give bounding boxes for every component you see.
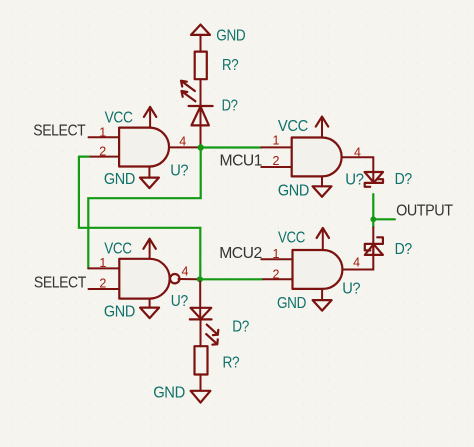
svg-text:4: 4 [182,265,189,279]
U4 pin 2 [261,267,292,281]
wire J1 to MCU1 pin1 [202,146,261,148]
svg-text:U?: U? [170,163,189,180]
LED D2 (bottom, cathode down) [190,308,250,345]
svg-text:MCU2: MCU2 [219,245,262,262]
U3 pin 1 [261,133,291,147]
junction J1 [198,144,204,150]
U3 VCC arrow [278,117,328,138]
svg-text:SELECT: SELECT [33,123,86,140]
svg-text:U?: U? [171,293,189,310]
svg-text:VCC: VCC [105,109,133,126]
op-amp U3 AND gate (MCU1, top-right) [292,138,365,189]
wire J2 down to LED D2 [199,282,201,320]
svg-text:GND: GND [104,303,135,320]
op-amp U2 NAND gate (bottom-left) [119,259,188,310]
wire stub U1 pin2 [79,156,89,158]
svg-text:VCC: VCC [278,229,305,246]
svg-text:1: 1 [99,256,106,270]
wire D3 to J3 [372,194,374,227]
diode D3 schottky (top-right, pointing down) [365,171,413,188]
svg-text:GND: GND [278,182,309,199]
diode D4 schottky (bottom-right, pointing up) [365,227,413,258]
svg-text:VCC: VCC [278,118,308,135]
svg-text:R?: R? [222,57,239,74]
svg-text:D?: D? [395,241,413,258]
LED D1 (top, cathode up) [181,81,238,126]
U3 pin 4 output [342,145,374,183]
svg-text:D?: D? [222,98,239,115]
power symbol GND (top, rotated up) [191,25,245,52]
svg-text:2: 2 [273,267,280,281]
svg-text:4: 4 [353,256,360,270]
svg-text:GND: GND [153,384,185,401]
svg-text:OUTPUT: OUTPUT [396,202,453,219]
wire resistor R1 to LED D1 [200,79,202,125]
U4 pin 1 [261,247,292,261]
U2 pin 1 [88,256,119,270]
svg-text:2: 2 [273,154,280,168]
svg-text:1: 1 [99,125,106,139]
resistor R1 (top) [195,52,239,80]
op-amp U4 AND gate (MCU2, bottom-right) [293,250,361,298]
U2 VCC arrow [104,239,156,259]
svg-text:1: 1 [273,247,280,261]
svg-text:VCC: VCC [104,240,132,257]
wire LED D2 to resistor R2 [200,319,202,346]
op-amp U1 AND gate (top-left) [119,128,189,180]
svg-text:MCU1: MCU1 [220,152,263,169]
U1 pin 2 [89,145,120,159]
svg-text:2: 2 [99,277,106,291]
U3 GND [278,176,332,199]
wire J3 to OUTPUT label [373,218,395,220]
svg-text:R?: R? [223,355,240,372]
svg-text:GND: GND [104,171,135,188]
resistor R2 (bottom) [195,346,240,374]
U4 VCC arrow [278,228,329,250]
U2 pin 2 [89,277,120,291]
wire R2 to GND [200,375,202,391]
svg-text:2: 2 [99,145,106,159]
U2 pin 4 output [179,265,198,280]
U1 pin 1 [89,125,120,139]
svg-text:D?: D? [232,318,249,335]
U3 pin 2 [261,154,291,168]
U2 GND [104,299,159,321]
U1 VCC arrow [105,107,157,128]
junction J3 OUTPUT node [370,216,376,222]
svg-text:GND: GND [277,295,306,312]
svg-text:U?: U? [345,172,364,189]
svg-text:U?: U? [342,281,361,298]
svg-text:4: 4 [354,145,361,159]
power symbol GND (bottom) [153,384,210,402]
svg-text:GND: GND [216,28,245,45]
wire J2 to MCU2 pin2 [202,278,261,280]
svg-text:SELECT: SELECT [34,275,87,292]
svg-text:4: 4 [179,134,186,148]
U4 pin 4 output [343,244,374,270]
wire U1 pin2 down-right-down to J2 (cross-couple) [79,157,200,278]
U4 GND [277,289,332,312]
U1 pin 4 output [169,134,198,148]
junction J2 [197,276,203,282]
U1 GND [104,167,159,189]
wire LED D1 to junction J1 [200,125,202,144]
svg-text:1: 1 [273,133,280,147]
svg-text:D?: D? [395,171,413,188]
wire J1 down-left-down to U2 pin1 (cross-couple) [88,150,200,269]
